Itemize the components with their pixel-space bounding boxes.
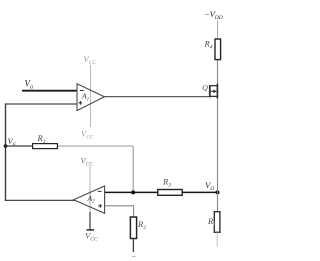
svg-text:VCC: VCC (81, 156, 94, 168)
svg-text:A1: A1 (81, 92, 90, 103)
svg-text:R3: R3 (162, 177, 171, 189)
svg-text:VCC: VCC (81, 129, 94, 141)
svg-text:Q1: Q1 (202, 83, 211, 94)
svg-text:R4: R4 (204, 39, 213, 51)
svg-text:R2: R2 (137, 219, 146, 231)
svg-text:−VDD: −VDD (205, 9, 223, 21)
svg-text:Va: Va (25, 79, 34, 91)
svg-text:A2: A2 (87, 194, 96, 205)
svg-text:VCC: VCC (84, 54, 97, 66)
svg-text:VO: VO (205, 180, 214, 192)
svg-text:VCC: VCC (85, 231, 98, 243)
